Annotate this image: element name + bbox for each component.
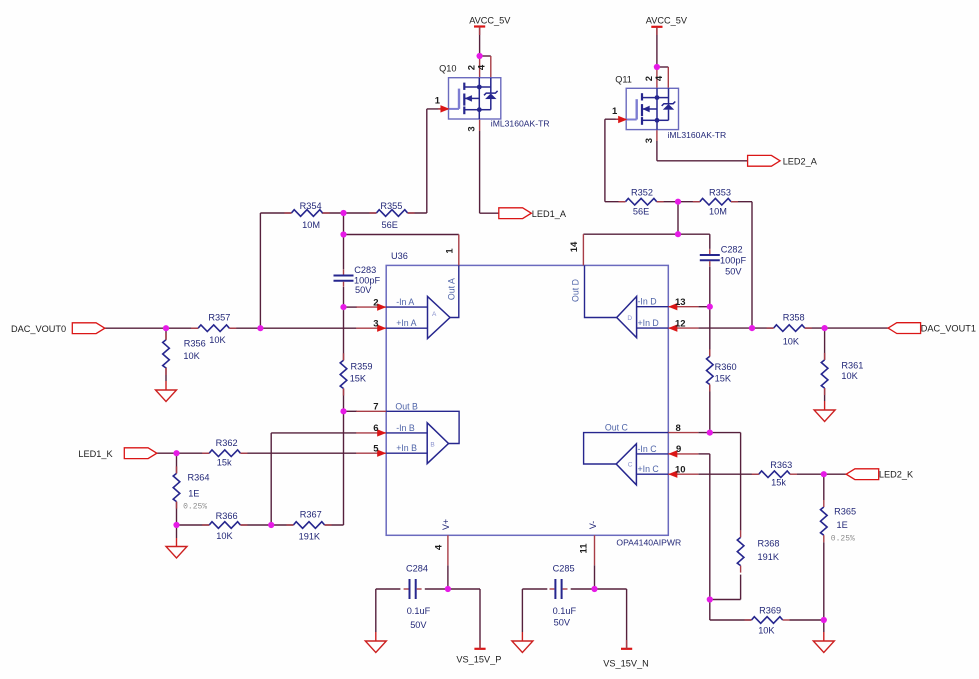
svg-text:10K: 10K — [783, 336, 800, 346]
svg-text:LED2_K: LED2_K — [879, 470, 914, 480]
svg-text:0.25%: 0.25% — [831, 534, 855, 543]
svg-text:B: B — [430, 441, 434, 448]
svg-text:5: 5 — [373, 443, 379, 454]
svg-text:-In D: -In D — [638, 297, 657, 307]
svg-text:iML3160AK-TR: iML3160AK-TR — [491, 119, 550, 129]
svg-text:12: 12 — [675, 318, 686, 329]
svg-text:1: 1 — [435, 96, 441, 107]
svg-text:-In A: -In A — [396, 297, 414, 307]
svg-text:50V: 50V — [355, 285, 372, 295]
svg-text:VS_15V_P: VS_15V_P — [456, 654, 501, 664]
svg-text:DAC_VOUT1: DAC_VOUT1 — [921, 324, 976, 334]
svg-text:V-: V- — [588, 521, 598, 529]
svg-text:R363: R363 — [770, 460, 792, 470]
svg-text:191K: 191K — [758, 552, 780, 562]
svg-text:R365: R365 — [834, 506, 856, 516]
svg-text:2: 2 — [373, 297, 378, 308]
svg-text:3: 3 — [644, 138, 655, 143]
svg-text:11: 11 — [579, 543, 590, 554]
svg-text:56E: 56E — [382, 220, 398, 230]
svg-text:10K: 10K — [209, 335, 226, 345]
svg-text:4: 4 — [654, 75, 665, 81]
svg-text:OPA4140AIPWR: OPA4140AIPWR — [616, 538, 681, 548]
svg-text:191K: 191K — [299, 531, 321, 541]
svg-text:R359: R359 — [351, 362, 373, 372]
svg-text:R362: R362 — [216, 438, 238, 448]
svg-text:LED2_A: LED2_A — [783, 156, 818, 166]
svg-text:10M: 10M — [709, 207, 727, 217]
svg-text:+In A: +In A — [396, 318, 416, 328]
svg-text:C284: C284 — [406, 564, 428, 574]
svg-text:Out B: Out B — [395, 401, 418, 411]
svg-text:10M: 10M — [302, 220, 320, 230]
svg-text:iML3160AK-TR: iML3160AK-TR — [668, 130, 727, 140]
svg-text:R364: R364 — [188, 473, 210, 483]
svg-text:3: 3 — [466, 126, 477, 131]
svg-text:1: 1 — [612, 106, 618, 117]
svg-text:DAC_VOUT0: DAC_VOUT0 — [11, 324, 66, 334]
svg-text:D: D — [627, 315, 632, 322]
svg-text:R353: R353 — [709, 188, 731, 198]
svg-text:15K: 15K — [350, 374, 367, 384]
svg-text:1E: 1E — [837, 520, 848, 530]
svg-text:Out C: Out C — [605, 423, 629, 433]
svg-text:50V: 50V — [554, 618, 571, 628]
svg-text:10K: 10K — [758, 626, 775, 636]
svg-text:-In B: -In B — [396, 423, 415, 433]
svg-text:R361: R361 — [841, 361, 863, 371]
svg-text:6: 6 — [373, 423, 378, 434]
svg-text:A: A — [432, 311, 437, 318]
svg-text:-In C: -In C — [638, 444, 658, 454]
svg-text:15K: 15K — [715, 374, 732, 384]
svg-text:R356: R356 — [184, 338, 206, 348]
svg-text:10: 10 — [675, 464, 686, 475]
svg-text:4: 4 — [434, 544, 445, 550]
svg-text:3: 3 — [373, 318, 378, 329]
svg-text:10K: 10K — [216, 531, 233, 541]
svg-text:Q11: Q11 — [615, 74, 632, 84]
svg-text:AVCC_5V: AVCC_5V — [646, 16, 688, 26]
svg-text:AVCC_5V: AVCC_5V — [469, 16, 511, 26]
svg-text:8: 8 — [676, 423, 681, 434]
svg-text:9: 9 — [676, 444, 681, 455]
svg-text:+In B: +In B — [396, 443, 417, 453]
svg-text:R369: R369 — [759, 606, 781, 616]
svg-text:C282: C282 — [721, 244, 743, 254]
svg-text:LED1_A: LED1_A — [532, 209, 567, 219]
svg-text:0.25%: 0.25% — [183, 503, 207, 512]
svg-text:0.1uF: 0.1uF — [407, 606, 431, 616]
svg-text:15k: 15k — [217, 457, 232, 467]
svg-text:R366: R366 — [216, 511, 238, 521]
svg-text:14: 14 — [569, 241, 580, 252]
svg-text:Out A: Out A — [447, 278, 457, 300]
svg-text:4: 4 — [477, 64, 488, 70]
svg-text:0.1uF: 0.1uF — [553, 606, 577, 616]
svg-text:1E: 1E — [188, 488, 199, 498]
svg-text:R360: R360 — [715, 362, 737, 372]
svg-text:C285: C285 — [553, 564, 575, 574]
svg-text:R352: R352 — [631, 188, 653, 198]
svg-text:R355: R355 — [380, 201, 402, 211]
svg-text:7: 7 — [373, 402, 378, 413]
svg-text:100pF: 100pF — [720, 255, 746, 265]
svg-text:R357: R357 — [208, 312, 230, 322]
svg-text:R354: R354 — [300, 201, 322, 211]
svg-text:Q10: Q10 — [439, 64, 456, 74]
svg-text:C: C — [628, 461, 633, 468]
svg-text:50V: 50V — [725, 266, 742, 276]
svg-text:V+: V+ — [441, 519, 451, 530]
svg-text:LED1_K: LED1_K — [78, 449, 113, 459]
svg-text:1: 1 — [444, 248, 455, 254]
svg-text:R368: R368 — [758, 538, 780, 548]
svg-text:10K: 10K — [841, 371, 858, 381]
svg-text:U36: U36 — [391, 251, 408, 261]
svg-text:+In C: +In C — [638, 464, 660, 474]
svg-text:+In D: +In D — [638, 318, 659, 328]
svg-text:R358: R358 — [783, 313, 805, 323]
svg-text:Out D: Out D — [571, 279, 581, 302]
svg-text:56E: 56E — [633, 207, 649, 217]
svg-text:10K: 10K — [183, 351, 200, 361]
svg-text:15k: 15k — [771, 478, 786, 488]
svg-text:13: 13 — [675, 297, 686, 308]
svg-text:50V: 50V — [410, 620, 427, 630]
svg-text:C283: C283 — [354, 265, 376, 275]
svg-text:R367: R367 — [300, 510, 322, 520]
svg-text:VS_15V_N: VS_15V_N — [603, 658, 648, 668]
